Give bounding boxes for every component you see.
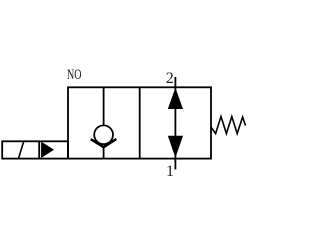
check valve seat: [91, 139, 117, 147]
solenoid box divider: [38, 141, 40, 158]
label port 1: [166, 163, 174, 180]
wire: flow line through open position: [174, 77, 176, 169]
arrow up (flow direction): [168, 88, 183, 109]
check valve ball: [94, 125, 113, 144]
label port 2: [166, 70, 174, 87]
wire: flow line below check valve seat: [103, 147, 105, 158]
valve body outline (2-position envelope): [68, 87, 211, 158]
solenoid actuator arrow: [41, 142, 54, 159]
envelope divider between positions: [139, 87, 141, 158]
svg-text:NO: NO: [67, 67, 82, 83]
wire: flow line above check valve: [103, 87, 105, 126]
spring (return spring): [211, 117, 246, 134]
label NO: [67, 67, 82, 83]
svg-text:1: 1: [166, 163, 174, 180]
solenoid coil box: [2, 141, 68, 158]
svg-text:2: 2: [166, 70, 174, 87]
arrow down (flow direction): [168, 136, 183, 158]
solenoid slash: [19, 141, 24, 158]
